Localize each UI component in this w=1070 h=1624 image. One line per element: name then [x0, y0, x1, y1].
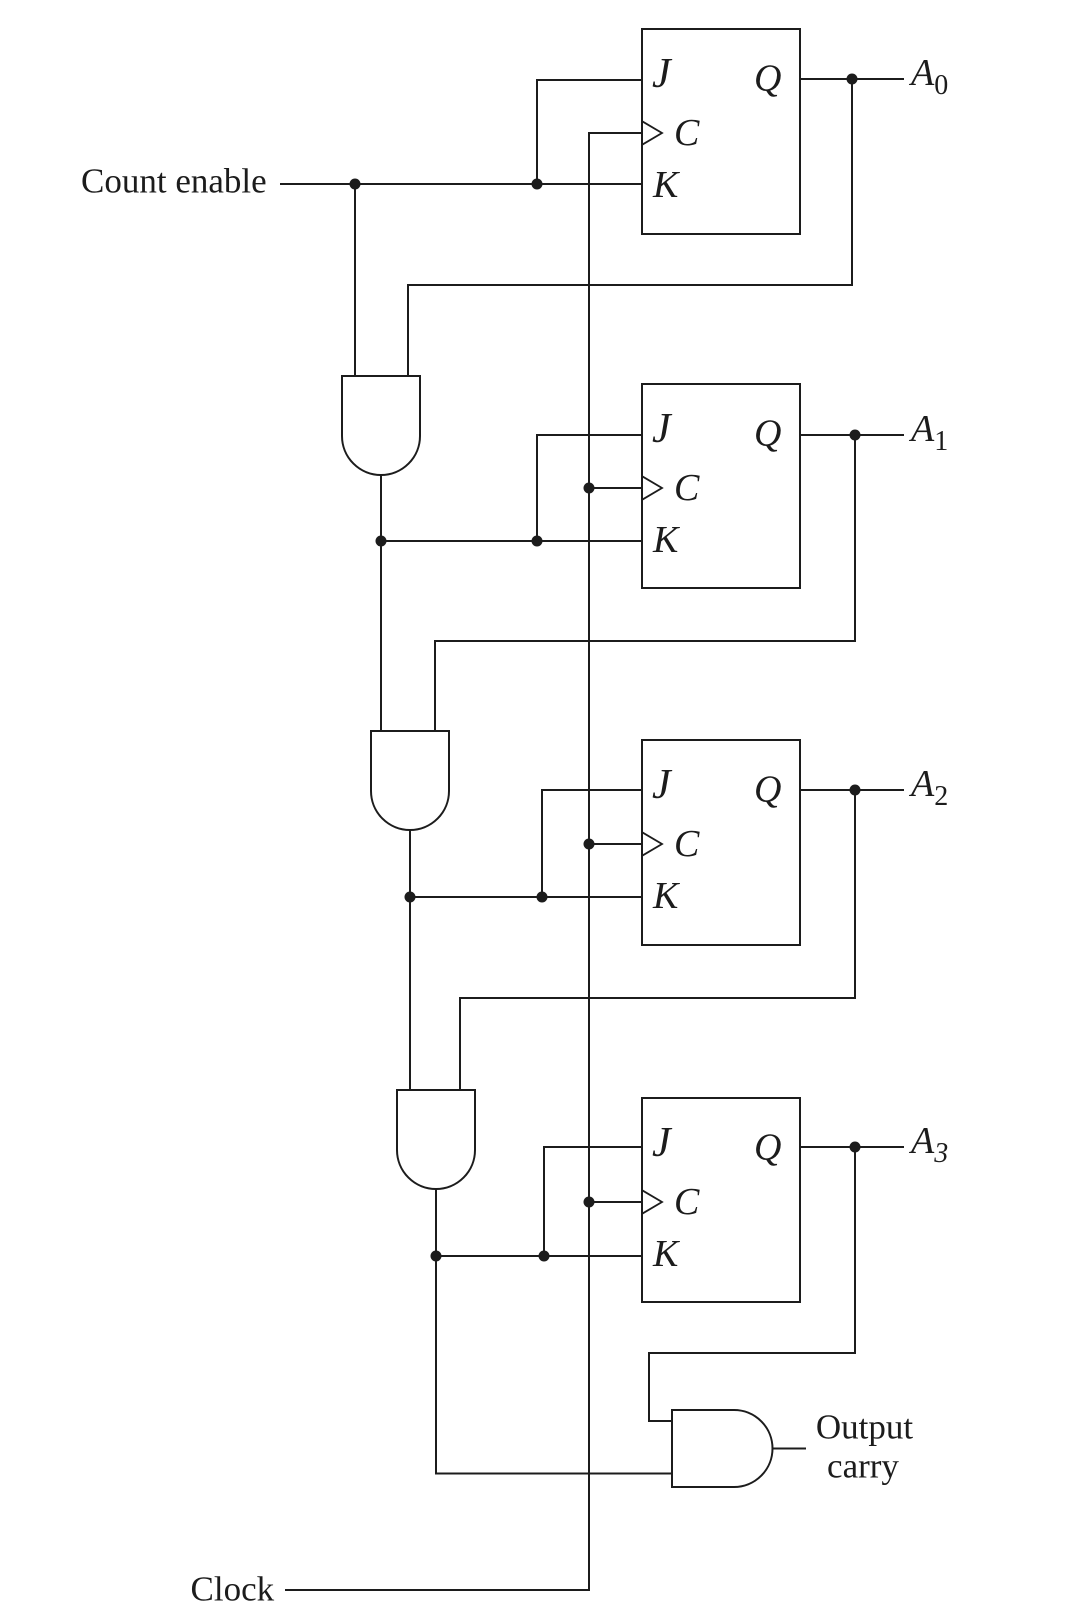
svg-text:Q: Q — [754, 1127, 781, 1169]
wire: branch up to FF3 J — [542, 790, 642, 897]
and-gate G4 output carry — [672, 1410, 773, 1487]
junction: A0 node — [847, 74, 858, 85]
svg-text:Clock: Clock — [191, 1570, 275, 1609]
svg-text:carry: carry — [827, 1447, 899, 1486]
svg-text:K: K — [652, 164, 680, 206]
svg-text:Q: Q — [754, 58, 781, 100]
clock triangle U3 — [642, 832, 662, 856]
wire: count enable down to AND1 input 1 — [354, 184, 356, 376]
svg-text:C: C — [674, 112, 700, 154]
junction: count enable / FF1 J branch — [532, 179, 543, 190]
wire: A3 feedback to carry gate input 1 — [649, 1147, 855, 1421]
junction: count enable / AND1 input — [350, 179, 361, 190]
junction: AND2 output / FF3 K — [405, 892, 416, 903]
flip-flop U1 box — [642, 29, 800, 234]
junction: A2 node — [850, 785, 861, 796]
wire: output carry lead — [773, 1448, 807, 1450]
wire: FF3 K input — [410, 896, 642, 898]
and-gate G2 — [371, 731, 449, 830]
svg-text:Q: Q — [754, 769, 781, 811]
junction: AND1 output / FF2 K — [376, 536, 387, 547]
junction: A1 node — [850, 430, 861, 441]
and-gate G1 — [342, 376, 420, 475]
svg-text:K: K — [652, 1233, 680, 1275]
wire: Count enable to FF1 K — [280, 183, 642, 185]
svg-text:C: C — [674, 467, 700, 509]
flip-flop U2 box — [642, 384, 800, 588]
wire: FF4 K input — [436, 1255, 642, 1257]
wire: branch up to FF4 J — [544, 1147, 642, 1256]
wire: A1 feedback to AND2 input 2 — [435, 435, 855, 731]
svg-text:C: C — [674, 823, 700, 865]
clock triangle U2 — [642, 476, 662, 500]
junction: clock / FF4 C — [584, 1197, 595, 1208]
svg-text:Q: Q — [754, 413, 781, 455]
wire: branch up to FF2 J — [537, 435, 642, 541]
clock triangle U4 — [642, 1190, 662, 1214]
wire: FF2 Q output to A1 — [800, 434, 904, 436]
wire: FF4 Q output to A3 — [800, 1146, 904, 1148]
svg-text:K: K — [652, 519, 680, 561]
clock triangle U1 — [642, 121, 662, 145]
junction: A3 node — [850, 1142, 861, 1153]
wire: clock branch to FF2 C — [589, 487, 642, 489]
svg-text:J: J — [652, 51, 673, 97]
wire: FF2 K input — [381, 540, 642, 542]
junction: FF2 K / J branch — [532, 536, 543, 547]
svg-text:Count enable: Count enable — [81, 162, 267, 201]
wire: Clock input and main clock vertical to FF1 C — [285, 133, 642, 1590]
flip-flop U4 box — [642, 1098, 800, 1302]
wire: FF3 Q output to A2 — [800, 789, 904, 791]
junction: AND3 output / FF4 K — [431, 1251, 442, 1262]
junction: clock / FF3 C — [584, 839, 595, 850]
wire: clock branch to FF3 C — [589, 843, 642, 845]
flip-flop U3 box — [642, 740, 800, 945]
svg-text:J: J — [652, 1120, 673, 1166]
wire: A2 feedback to AND3 input 2 — [460, 790, 855, 1090]
svg-text:Output: Output — [816, 1408, 914, 1447]
junction: FF3 K / J branch — [537, 892, 548, 903]
svg-text:K: K — [652, 875, 680, 917]
wire: AND2 output down to AND3 input 1 — [409, 830, 411, 1090]
svg-text:J: J — [652, 406, 673, 452]
wire: AND1 output down to AND2 input 1 — [380, 475, 382, 731]
wire: clock branch to FF4 C — [589, 1201, 642, 1203]
wire: AND3 output down and right to carry gate input 2 — [436, 1189, 672, 1474]
junction: clock / FF2 C — [584, 483, 595, 494]
and-gate G3 — [397, 1090, 475, 1189]
junction: FF4 K / J branch — [539, 1251, 550, 1262]
wire: branch up to FF1 J — [537, 80, 642, 184]
wire: A0 feedback to AND1 input 2 — [408, 79, 852, 376]
svg-text:C: C — [674, 1181, 700, 1223]
svg-text:J: J — [652, 762, 673, 808]
wire: FF1 Q output to A0 — [800, 78, 904, 80]
